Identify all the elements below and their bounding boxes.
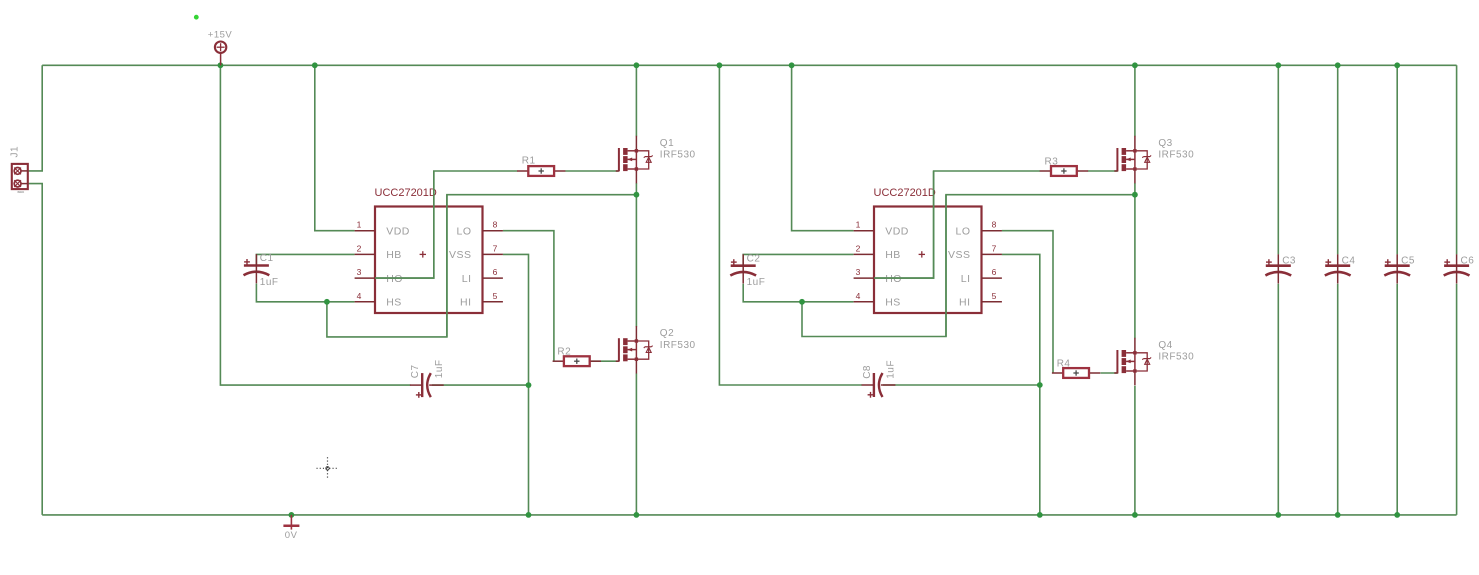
svg-text:+15V: +15V bbox=[208, 29, 233, 40]
wire C4 branch bbox=[1337, 65, 1339, 254]
svg-text:C3: C3 bbox=[1282, 255, 1296, 266]
wire HS2 riser over IC2 bbox=[945, 195, 947, 337]
transistor Q4 bbox=[1114, 338, 1151, 386]
svg-text:Q4: Q4 bbox=[1158, 340, 1172, 351]
wire HB1 to C1 bbox=[256, 254, 354, 265]
resistor R1 bbox=[517, 166, 565, 176]
wire HO2 over IC2 bbox=[874, 171, 934, 278]
stray green dot top-left bbox=[194, 15, 199, 20]
capacitor C8 bbox=[862, 373, 896, 398]
wire HS1 riser over IC1 bbox=[446, 195, 448, 337]
wire overlays crossing IC bodies bbox=[375, 171, 946, 337]
node 0V tap bbox=[289, 512, 295, 518]
IC U1 UCC27201D bbox=[355, 187, 503, 313]
wire C8 to VSS2 node bbox=[883, 384, 1040, 386]
svg-text:IRF530: IRF530 bbox=[660, 340, 696, 351]
svg-text:Q1: Q1 bbox=[660, 138, 674, 149]
wire +15V feed to C8 bbox=[719, 65, 862, 385]
wire Q4 source down bbox=[1134, 386, 1136, 515]
capacitor C4 bbox=[1325, 254, 1351, 283]
wire VSS2 vertical bbox=[1002, 254, 1040, 515]
wire C6 branch bbox=[1456, 65, 1458, 254]
wire left edge lower bbox=[28, 184, 42, 515]
transistor Q1 bbox=[616, 136, 653, 184]
capacitor C6 bbox=[1444, 254, 1470, 283]
resistor R3 bbox=[1040, 166, 1088, 176]
svg-text:PINHD-1X2: PINHD-1X2 bbox=[17, 190, 24, 194]
wire net: all green wires bbox=[28, 65, 1457, 515]
wire C7 to VSS node bbox=[432, 384, 529, 386]
svg-text:IRF530: IRF530 bbox=[660, 150, 696, 161]
wire node to Q4 drain bbox=[1134, 195, 1136, 339]
wire VDD2 feed bbox=[792, 65, 854, 230]
node C5 bottom bbox=[1394, 512, 1400, 518]
connector J1 bbox=[10, 146, 28, 194]
node C4 top bbox=[1335, 62, 1341, 68]
svg-text:1uF: 1uF bbox=[886, 360, 897, 379]
svg-text:IRF530: IRF530 bbox=[1158, 352, 1194, 363]
wire top +15V rail bbox=[42, 64, 1456, 66]
wire HS1 loop to Q1 source bbox=[327, 195, 636, 337]
node +15V at x220 bbox=[218, 62, 224, 68]
IC U2 UCC27201D bbox=[854, 187, 1002, 313]
svg-text:R3: R3 bbox=[1045, 157, 1059, 168]
node VSS1 bottom bbox=[526, 512, 532, 518]
capacitor C2 bbox=[730, 254, 756, 283]
wire HO2 to R3 bbox=[874, 171, 1040, 278]
wire R1 to Q1 gate bbox=[565, 170, 618, 172]
svg-text:R2: R2 bbox=[557, 346, 571, 357]
wire C3 branch bbox=[1277, 65, 1279, 254]
node HS2 bbox=[799, 299, 805, 305]
node Q4 source bottom bbox=[1132, 512, 1138, 518]
wire Q3 source to node bbox=[1134, 183, 1136, 195]
svg-text:1uF: 1uF bbox=[434, 359, 445, 378]
svg-text:1uF: 1uF bbox=[747, 277, 766, 288]
capacitor C1 bbox=[244, 254, 270, 283]
wire Q2 source down bbox=[635, 373, 637, 515]
wire LO2 to R4 bbox=[1002, 231, 1053, 373]
svg-text:C8: C8 bbox=[862, 365, 873, 379]
capacitor C5 bbox=[1384, 254, 1410, 283]
node phase B (Q3 source) bbox=[1132, 192, 1138, 198]
node C7/VSS1 bbox=[526, 382, 532, 388]
wire R4 to Q4 gate bbox=[1101, 372, 1119, 374]
wire R3 to Q3 gate bbox=[1088, 170, 1118, 172]
resistor R4 bbox=[1052, 368, 1100, 378]
svg-text:IRF530: IRF530 bbox=[1158, 150, 1194, 161]
node C3 top bbox=[1275, 62, 1281, 68]
node VDD2 tap bbox=[789, 62, 795, 68]
wire Q1 source to node bbox=[635, 183, 637, 195]
wire left edge upper bbox=[28, 65, 42, 171]
svg-text:1uF: 1uF bbox=[260, 277, 279, 288]
svg-text:R1: R1 bbox=[522, 155, 536, 166]
capacitor C7 bbox=[410, 373, 444, 398]
wire VSS1 vertical bbox=[503, 254, 529, 515]
svg-text:C2: C2 bbox=[747, 253, 761, 264]
svg-text:0V: 0V bbox=[285, 530, 298, 541]
origin crosshair marker bbox=[317, 457, 339, 479]
node Q2 source bottom bbox=[634, 512, 640, 518]
transistor Q2 bbox=[616, 326, 653, 374]
svg-text:Q2: Q2 bbox=[660, 328, 674, 339]
node Q3 drain tap bbox=[1132, 62, 1138, 68]
wire HB2 to C2 bbox=[743, 254, 853, 265]
ground 0V symbol bbox=[283, 515, 299, 530]
wire bottom 0V rail bbox=[42, 514, 1456, 516]
wire HO1 to R1 bbox=[375, 171, 517, 278]
wire R2 to Q2 gate bbox=[589, 360, 619, 362]
capacitor C3 bbox=[1265, 254, 1291, 283]
wire Q1 drain up bbox=[635, 65, 637, 136]
transistor Q3 bbox=[1114, 136, 1151, 184]
wire C1 bottom to HS1 bbox=[256, 284, 354, 302]
node Q1 drain tap bbox=[634, 62, 640, 68]
svg-text:C4: C4 bbox=[1342, 255, 1356, 266]
svg-text:C6: C6 bbox=[1461, 255, 1475, 266]
svg-text:C7: C7 bbox=[410, 364, 421, 378]
node C8/VSS2 bbox=[1037, 382, 1043, 388]
node C3 bottom bbox=[1275, 512, 1281, 518]
wire C2 bottom to HS2 bbox=[743, 284, 853, 302]
wire node to Q2 drain bbox=[635, 195, 637, 327]
node C4 bottom bbox=[1335, 512, 1341, 518]
svg-text:R4: R4 bbox=[1057, 359, 1071, 370]
wire HS2 loop to Q3 source bbox=[802, 195, 1135, 337]
node HS1 bbox=[324, 299, 330, 305]
node C5 top bbox=[1394, 62, 1400, 68]
svg-text:C1: C1 bbox=[260, 253, 274, 264]
node phase A (Q1 source) bbox=[634, 192, 640, 198]
wire C5 branch bbox=[1396, 65, 1398, 254]
svg-text:J1: J1 bbox=[10, 146, 21, 158]
resistor R2 bbox=[553, 356, 601, 366]
wire VDD1 feed bbox=[315, 65, 355, 230]
wire LO1 to R2 bbox=[503, 231, 554, 362]
node VSS2 bottom bbox=[1037, 512, 1043, 518]
supply +15V symbol bbox=[215, 42, 226, 66]
node VDD1 tap bbox=[312, 62, 318, 68]
node C8 tap bbox=[717, 62, 723, 68]
wire Q3 drain up bbox=[1134, 65, 1136, 136]
svg-text:Q3: Q3 bbox=[1158, 138, 1172, 149]
wire HO1 over IC1 bbox=[375, 171, 434, 278]
svg-text:C5: C5 bbox=[1401, 255, 1415, 266]
wire +15V feed to C7 bbox=[220, 65, 410, 385]
